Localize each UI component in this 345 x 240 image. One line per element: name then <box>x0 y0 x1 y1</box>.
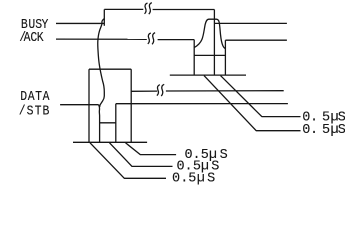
leader line: data setup time (to lowest label) <box>90 143 166 179</box>
wire data rail (right of break) <box>166 90 284 92</box>
DATA change edge / dimension line right, down to bottom baseline <box>130 69 132 142</box>
/STB falling edge (wobbly) down to bottom baseline <box>99 105 100 143</box>
wire /STB low level <box>100 122 116 124</box>
curved cause line from /STB fall up to BUSY rise <box>98 19 105 108</box>
BUSY falling edge / dimension line down to baseline <box>213 10 215 76</box>
svg-text:/STB: /STB <box>19 104 50 119</box>
BUSY rising edge <box>103 9 105 25</box>
leader line: data hold time <box>126 143 177 155</box>
wire BUSY label line (low level, left) <box>56 22 104 24</box>
wire /STB high level (right) <box>116 103 288 105</box>
curved ACK pulse (analog bell over BUSY fall) <box>194 19 225 48</box>
break symbol on BUSY high line <box>145 3 148 14</box>
/STB rising edge / dimension line to bottom baseline <box>115 104 117 143</box>
svg-text:0.5µS: 0.5µS <box>185 148 228 163</box>
wire /ACK low level <box>194 54 225 56</box>
break symbol on data rail <box>157 85 160 96</box>
dimension baseline (bottom, under STB pulse) <box>73 141 147 143</box>
dimension baseline (right, under ACK pulse) <box>170 74 246 76</box>
wire BUSY high level (left of break) <box>104 8 143 10</box>
svg-text:DATA: DATA <box>20 89 50 104</box>
wire BUSY low level (right) <box>214 22 287 24</box>
/ACK falling edge / dimension line to baseline <box>193 40 195 76</box>
wire /ACK high level (between break and fall) <box>158 39 195 41</box>
wire /ACK high level (left of break) <box>56 38 147 40</box>
leader line right 2 (ACK pulse width) <box>204 76 301 131</box>
leader line right 1 (BUSY fall to ACK rise) <box>221 76 301 117</box>
DATA change edge / dimension line left, down to bottom baseline <box>88 69 90 142</box>
leader line: strobe pulse width <box>110 143 173 167</box>
break symbol on /ACK line <box>148 33 151 44</box>
/ACK rising edge / dimension line to baseline <box>224 40 226 75</box>
wire data rail (left of break) from DATA box corner <box>131 90 157 92</box>
DATA box top rail <box>89 68 131 70</box>
svg-text:/ACK: /ACK <box>19 30 44 45</box>
wire DATA//STB label line <box>60 104 99 106</box>
wire BUSY high level (right of break) <box>153 9 215 11</box>
svg-text:0.5µS: 0.5µS <box>302 123 345 138</box>
wire /ACK high level (right) <box>225 39 287 41</box>
